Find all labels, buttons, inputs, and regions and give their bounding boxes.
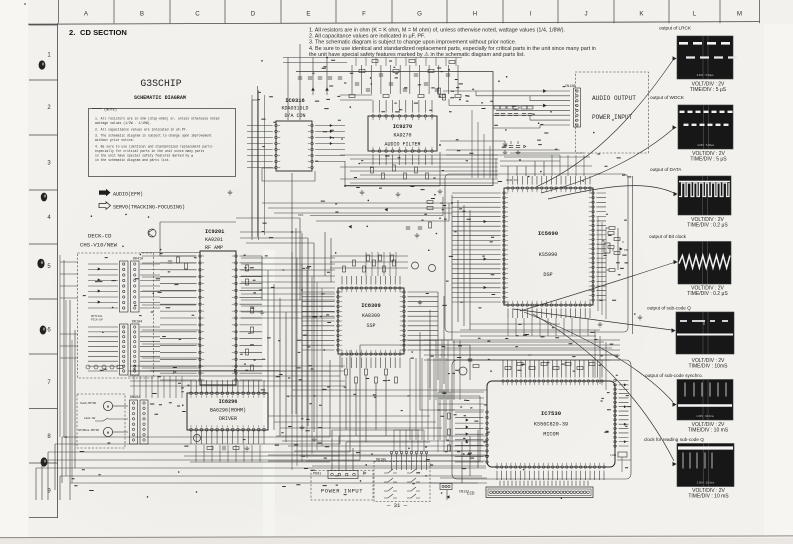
transistor Q8296 [193,434,200,441]
wire driver top bus [128,375,340,377]
wire deck lower joins [142,329,200,331]
svg-text:IC0316: IC0316 [285,98,304,104]
wires micom left [455,412,484,462]
wires IC0316 left [247,126,273,168]
wire DSP-right vertical bundle [597,217,599,311]
key matrix stubs [392,454,427,462]
svg-text:BA6296(ROHM): BA6296(ROHM) [210,408,246,414]
wire bus h5 [36,467,486,469]
svg-text:SCHEMATIC DIAGRAM: SCHEMATIC DIAGRAM [134,95,186,101]
wire driver to micom [268,454,487,456]
audio section enclosure [296,72,493,186]
wires DSP bottom stubs [508,308,590,318]
transistor Q8312 [429,265,436,272]
svg-text:D/A CON: D/A CON [284,113,305,119]
IC0316 right pins [311,124,314,169]
wire LCD feeders horizontal [440,477,487,479]
svg-text:LEAF-SW: LEAF-SW [84,417,96,420]
IC IC9201 body [200,251,236,385]
svg-text:P601: P601 [313,473,321,477]
misc junction dots [291,57,521,291]
oscillogram screen 4 [678,242,731,285]
svg-text:4.00V : 5.00μs: 4.00V : 5.00μs [697,73,714,77]
wire bottom collectors [190,461,330,463]
wire vertical risers top [287,58,289,121]
wires SSP right [408,292,439,350]
wire micom top bus [440,354,618,356]
wires DK connectors right [140,264,160,308]
driver bottom components [207,447,213,450]
wires driver top stubs [191,380,264,392]
arrow near P601 [364,472,366,475]
transistor Q8311 [412,262,419,269]
motor dashed boundary [77,394,125,448]
IC7530 left pins [486,411,489,464]
svg-text:SPINDLE-MOTOR: SPINDLE-MOTOR [78,429,99,432]
svg-text:4. Be sure to use identical an: 4. Be sure to use identical and standard… [95,144,214,148]
svg-text:I: I [530,11,532,18]
micom top risers [503,360,602,368]
wire micom top riser bundle [429,340,431,400]
svg-text:without prior notice.: without prior notice. [95,138,135,142]
IC8309 right pins [403,291,406,352]
IC7530 bottom pins [496,466,606,469]
wire trunk lower horizontals [268,415,430,417]
wire DSP top bus [500,165,592,167]
oscillogram screen 2 [678,105,733,149]
svg-text:output of sub-code Q: output of sub-code Q [647,306,691,311]
svg-text:▲: ▲ [122,244,124,248]
IC5690 left pins [503,192,506,303]
capacitor group under audio net [503,144,507,146]
wire bus h4 [42,459,360,461]
IC pin-name marks [506,193,508,302]
connector LCD pins [490,491,590,494]
wire center long h1 [292,389,487,391]
wires key matrix internal [392,462,427,470]
wire driver top bus extra [130,365,345,367]
SSP bottom components [345,369,348,375]
svg-text:2.: 2. [69,28,75,37]
wire DSP bottom bus [470,323,560,325]
svg-text:DSP: DSP [543,272,552,278]
IC9270 top stubs [373,100,432,113]
wire DSP bottom collectors [460,335,596,337]
svg-text:clock for reading sub-code Q: clock for reading sub-code Q [644,437,704,442]
IC8309 left pins [337,291,340,352]
svg-text:CN121: CN121 [459,491,469,495]
binder punch holes [39,60,46,69]
top ruler ticks [59,0,760,23]
svg-text:2.00V : 10.0ms: 2.00V : 10.0ms [697,481,715,485]
svg-text:— 31 —: — 31 — [386,502,408,509]
IC7530 right pins [614,379,617,447]
connector DK102 pins [132,402,134,441]
resistor trio above SSP [367,255,370,261]
callout curve 7 [533,314,674,461]
svg-text:1. All resistors are in ohm (c: 1. All resistors are in ohm (chip-ohms) … [95,117,220,121]
svg-text:IC9270: IC9270 [393,124,412,130]
key switches [384,469,397,473]
connector P601 pins [331,473,356,476]
svg-text:2. All capacitance values are: 2. All capacitance values are indicated … [309,34,426,40]
wires RF left [160,256,197,380]
filter bottom resistors [371,167,374,173]
RF right verticals [261,256,263,300]
svg-text:TIME/DIV : 0.2 μS: TIME/DIV : 0.2 μS [687,291,728,297]
svg-text:DECK-CD: DECK-CD [88,233,112,240]
crystal X5690 [604,243,610,253]
diode D audio [524,145,526,147]
capacitor row top [298,77,302,79]
wires IC0316 right to filter [315,126,345,162]
RC network cluster 3 [521,106,527,109]
motor M2 [103,427,112,436]
wire RF right riser bundle [291,252,293,470]
ground DSP right [598,322,603,327]
wire mesh filter-DSP verticals [471,110,473,178]
inductor L100 cluster [618,452,627,457]
IC9201 left pins [199,255,202,382]
callout curve 1 [536,60,673,187]
svg-text:KA9201: KA9201 [205,237,223,243]
svg-text:SSP: SSP [366,323,375,329]
svg-text:4.00V : 5.00μs: 4.00V : 5.00μs [697,143,714,147]
svg-text:J: J [584,11,587,18]
wire SSP to micom v [419,332,421,410]
stray dot top-left [24,3,26,5]
micom left components [448,413,451,419]
junction dots scattered [91,60,636,499]
wire center long h2 [286,395,480,397]
svg-text:G: G [417,11,422,18]
svg-text:IC8309: IC8309 [361,303,380,309]
IC8309 top pins [341,287,402,290]
IC0316 left pins [275,124,278,169]
svg-text:the unit have special safety f: the unit have special safety features ma… [309,52,525,58]
crystal network right of DSP [608,232,614,235]
RF area components [246,265,249,271]
wire below-driver verticals [195,445,197,462]
wire top area extra verticals [355,58,357,67]
wires filter to CN126 [443,90,570,92]
DSP enclosure box [445,174,628,332]
oscillogram screen 7 [677,444,734,487]
svg-text:RF AMP: RF AMP [205,245,223,251]
margin brightening [0,0,28,537]
svg-text:2. All capacitance values are: 2. All capacitance values are indicated … [95,127,187,131]
wire driver left risers [133,376,135,398]
svg-text:TIME/DIV : 0.2 μS: TIME/DIV : 0.2 μS [687,223,728,229]
wire micom top bus lines [424,339,620,341]
top resistor group [349,95,355,98]
svg-text:TIME/DIV : 10mS: TIME/DIV : 10mS [689,364,729,370]
DSP right components [609,227,615,230]
svg-text:1. All resistors are in ohm (: 1. All resistors are in ohm (K = K ohm, … [309,28,565,34]
svg-text:KS5990: KS5990 [539,252,558,258]
svg-text:KA9270: KA9270 [393,133,411,139]
svg-text:HIGH CUT: HIGH CUT [506,179,519,182]
IC8309 bottom pins [341,353,402,356]
svg-text:IC5690: IC5690 [538,230,559,237]
wire mesh SSP-to-micom [276,435,486,437]
wire bus far-left drops [63,260,65,437]
wires micom bottom stubs [497,471,604,480]
EFM arrows to CN126 [543,90,546,93]
svg-text:output of LRCK: output of LRCK [659,26,692,31]
svg-text:D: D [251,11,256,18]
connector DK104 pins [123,326,125,372]
wire bus h1 [62,436,330,438]
wire trunk verticals mid [291,173,293,414]
wire left edge long verticals [59,255,61,437]
wire deck-left stubs [60,261,78,263]
left ruler ticks [29,25,58,518]
servo bus open arrows [173,371,176,374]
wires micom top stubs [503,368,602,378]
wire SSP top feeders [330,255,408,257]
svg-text:1.00V : 10.0ms: 1.00V : 10.0ms [696,414,714,418]
IC8296 top pins [190,392,266,395]
wire mesh filter-to-DSP horizontals [340,154,498,156]
oscillogram screen 3 [678,176,731,215]
wire mesh SSP right to micom verticals [409,358,411,440]
transistor Q7530 [459,367,467,375]
wire IC0316 bottom loop [262,168,315,181]
svg-text:POWER INPUT: POWER INPUT [321,489,363,495]
svg-text:L100: L100 [610,454,617,457]
wires power input up [331,430,333,470]
wires motors to DK102 [113,405,128,407]
wire DSP top feeder [446,149,560,151]
motor M1 [103,401,112,410]
svg-text:AUDIO FILTER: AUDIO FILTER [384,142,420,148]
op-amp U IC0316 body [276,121,312,171]
wires deck to DK104 [88,327,118,371]
ground symbols scattered [245,446,250,451]
diode D121 [447,496,449,498]
svg-text:3. The schematic diagram is su: 3. The schematic diagram is subject to c… [95,134,212,138]
wire bus right risers [329,360,331,437]
wires SSP left [302,292,335,350]
wires above RF [160,221,236,223]
ground under filter [360,190,365,195]
IC9270 bottom stubs [373,154,432,165]
svg-text:wattage values (1/2W - 1/10W).: wattage values (1/2W - 1/10W). [95,121,152,125]
left ruler line [57,23,59,518]
pickup diode arrows [98,268,100,270]
svg-text:C: C [195,11,200,18]
wires SSP bottom stubs [342,358,400,369]
svg-text:output of sub-code synchro.: output of sub-code synchro. [645,373,703,378]
svg-text:B: B [140,11,144,18]
SSP right bus verticals [437,292,439,380]
transistor Q9201 [148,229,156,237]
svg-text:DK102: DK102 [130,396,140,400]
wire center long h4 [404,339,452,341]
ground audio net [503,150,508,155]
component value label marks [64,60,631,494]
svg-text:output of Bit clock: output of Bit clock [649,234,687,239]
wires LCD up [500,481,588,486]
svg-text:TIME/DIV : 5 μS: TIME/DIV : 5 μS [690,87,727,93]
IC9270 top pins [372,115,434,118]
wire audio staircase [449,91,530,120]
svg-text:TIME/DIV : 10 mS: TIME/DIV : 10 mS [688,494,729,500]
wire top bus [283,57,462,59]
bus rectangle around IC0316 [257,86,259,237]
wire bus h3 [48,451,350,453]
connector DK410 pins [123,263,125,309]
arrows into DSP [484,220,486,222]
svg-text:AUDIO OUTPUT: AUDIO OUTPUT [592,95,636,102]
svg-text:DK105: DK105 [376,459,386,463]
DSP left bus verticals [451,195,453,318]
top ruler line [28,22,760,25]
wires under IC9270 [345,185,440,187]
svg-text:G3SCHIP: G3SCHIP [140,78,181,89]
IC IC8309 body [338,288,404,354]
wires DSP top stubs [508,176,590,185]
svg-text:F: F [362,11,366,18]
svg-text:4. Be sure to use identical a: 4. Be sure to use identical and standard… [309,46,596,52]
svg-text:CD SECTION: CD SECTION [80,28,127,37]
svg-text:IC9201: IC9201 [205,229,224,235]
wire bus h2 [55,443,340,445]
SSP bottom verticals [345,375,347,430]
micom outer enclosure [452,360,631,479]
svg-text:IC8296: IC8296 [219,399,238,405]
deck dashed boundary [78,253,154,378]
wire DSP bottom drop bundle [507,318,509,336]
oscillogram screen 6 [677,380,733,421]
svg-text:SERVO(TRACKING-FOCUSING): SERVO(TRACKING-FOCUSING) [113,204,185,210]
svg-text:AUDIO(EFM): AUDIO(EFM) [113,191,143,197]
oscillogram screen 5 [676,312,734,354]
connector LCD body [486,487,593,498]
svg-text:output of WDCK: output of WDCK [650,95,685,100]
wires driver bottom stubs [191,431,264,444]
svg-text:KA8309: KA8309 [362,313,380,319]
wire deck-RF joins [142,255,196,257]
svg-text:L: L [693,11,697,18]
key matrix top pins [390,451,427,453]
svg-text:X: X [622,241,624,244]
servo arrows on D/A lines [330,124,332,126]
svg-text:CHS-V10/NEW: CHS-V10/NEW [80,242,118,249]
wire bus left verticals [35,468,37,500]
RF supply components [177,257,180,263]
svg-text:PICK-UP: PICK-UP [91,319,103,322]
wire bus h6 [60,475,482,477]
top capacitor group [355,83,359,85]
svg-text:MICOM: MICOM [543,432,559,438]
IC IC7530 body [487,381,615,467]
power input dashed box [311,471,373,501]
svg-text:VCC: VCC [298,214,304,217]
connector CN126 pins [576,90,578,126]
bottom scan edge line [0,536,793,538]
wire center long h3 [360,344,470,346]
wire micom left mesh [438,391,484,393]
svg-text:X: X [612,249,614,252]
IC IC8296 body [187,393,268,430]
EFM arrows left on trunk [385,208,387,211]
legend servo arrow [99,202,111,210]
wires DSP top risers [507,166,509,176]
wires micom right [619,381,629,447]
svg-text:TO: TO [624,249,628,252]
svg-text:KS56C820-39: KS56C820-39 [534,422,568,428]
wires deck to DK410 [88,264,118,308]
svg-text:IC7530: IC7530 [541,410,562,417]
svg-text:H: H [473,11,477,18]
wire trunk staircase [310,197,449,221]
op-amp U IC9270 body [368,116,437,151]
IC5690 bottom pins [507,304,592,307]
legend audio EFM arrow [99,189,111,197]
note box [89,109,236,177]
callout curve 2 [541,129,673,193]
audio power dashed box [575,72,648,153]
callout curve 3 [548,186,674,199]
wire left-of-IC0316 vertical bundle [251,95,253,240]
wire audio bottom run [493,127,540,129]
micom right arrows [624,384,626,386]
wire SSP top riser row [365,252,367,276]
RC network cluster 2 [507,106,513,109]
callout curve 4 [520,263,674,312]
svg-text:in the schematic diagram and p: in the schematic diagram and parts list. [95,158,171,162]
IC IC5690 body [504,188,593,305]
oscillogram screen 1 [677,36,733,79]
DSP enclosure double edge [632,176,634,334]
svg-text:(NOTE): (NOTE) [104,108,117,113]
svg-text:M: M [737,11,742,18]
key matrix dashed box [374,462,430,502]
svg-text:TIME/DIV : 5 μS: TIME/DIV : 5 μS [690,157,727,163]
RF vcc vertical [299,218,301,300]
wire RF-SSP horizontal joins [241,257,335,259]
IC7530 top pins [502,380,604,383]
resistor R audio pair [438,88,441,94]
svg-text:DRIVER: DRIVER [219,416,237,422]
wires RF right [239,256,262,380]
svg-text:especially for critical parts: especially for critical parts in the uni… [95,149,204,153]
wire bottom trunk [479,396,481,461]
IC5690 right pins [592,192,595,301]
wire bus h7 [70,482,478,484]
RC network cluster 1 [494,106,500,109]
connector DK104 body [120,324,129,375]
connector CN121 [440,484,452,490]
micom top components [505,367,511,370]
IC9270 bottom pins [372,150,434,153]
wire DSP-micom right verticals [594,330,596,378]
deck bottom trimmers [86,365,90,369]
svg-text:KDA0316LD: KDA0316LD [281,106,308,112]
connector DK102 body [130,400,138,444]
wires DSP right stubs [596,193,606,300]
micom reset parts [473,365,479,368]
svg-text:TIME/DIV : 10 mS: TIME/DIV : 10 mS [688,428,729,434]
callout curve 6 [524,312,673,402]
svg-text:output of DATA: output of DATA [650,167,682,172]
svg-text:SLED-MOTOR: SLED-MOTOR [80,402,97,405]
top component stubs [352,65,458,94]
wire DSP top bus extra [504,156,590,158]
filter-out RC cluster [406,227,410,229]
